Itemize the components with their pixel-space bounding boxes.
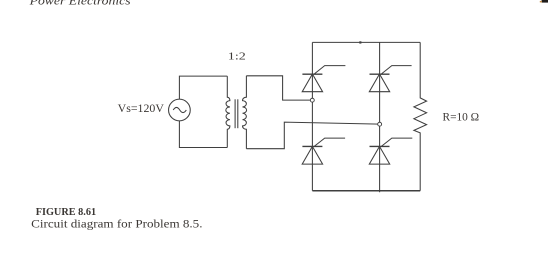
wire: source top to primary top [179,76,227,99]
svg-text:Vs=120V: Vs=120V [118,102,165,115]
wire: source bottom to primary bottom [179,121,227,148]
node A (open junction on left rail) [310,98,314,102]
thyristor T1 (top left) [302,66,345,92]
thyristor T4 (bottom right) [369,138,412,164]
thyristor T2 (top right) [369,66,411,92]
thyristor T3 (bottom left) [302,138,345,164]
svg-text:Circuit diagram for Problem 8.: Circuit diagram for Problem 8.5. [31,219,203,231]
transformer T1 secondary winding [243,76,247,149]
transformer T1 core [235,99,238,128]
wire: left rail [311,42,313,190]
svg-text:FIGURE 8.61: FIGURE 8.61 [36,207,96,218]
svg-text:1:2: 1:2 [228,51,246,63]
resistor R [414,42,427,190]
wire: secondary bottom to node B [246,122,379,149]
svg-text:Power Electronics: Power Electronics [28,0,131,8]
transformer T1 primary winding [226,76,230,147]
node B (open junction on middle rail) [378,122,382,126]
page number fragment (top right corner, cut off) [540,0,548,3]
junction dot on top rail [359,41,361,43]
wire: bridge bottom rail [312,190,420,192]
wire: secondary top to node A [246,76,312,100]
wire: bridge top rail [312,41,420,43]
svg-text:R=10 Ω: R=10 Ω [443,112,480,124]
ac source VS (circle with sine) [169,99,191,121]
wire: middle rail [379,42,381,192]
